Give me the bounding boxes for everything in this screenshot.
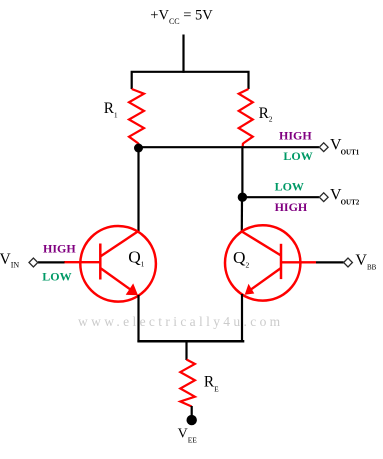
terminal diamond VIN <box>29 258 38 267</box>
resistor R2 <box>239 89 253 144</box>
wire R2 bottom lead <box>241 143 244 148</box>
wire VOUT1 horizontal <box>139 146 320 148</box>
svg-text:www.electrically4u.com: www.electrically4u.com <box>78 314 284 329</box>
transistor Q2 base bar <box>280 244 283 279</box>
resistor R1 <box>129 89 144 144</box>
transistor Q2 collector line <box>242 232 281 256</box>
wire VEE lead <box>191 406 193 419</box>
resistor RE <box>180 360 195 407</box>
wire R1 bottom lead <box>137 143 139 149</box>
wire VOUT2 horizontal <box>242 196 319 198</box>
transistor Q2 emitter line <box>247 268 281 292</box>
node junction dot N2 <box>238 193 247 202</box>
wire Q2 emitter drop <box>241 294 243 342</box>
transistor Q2 circle <box>225 225 300 300</box>
svg-text:LOW: LOW <box>283 149 312 163</box>
wire Q1 collector drop <box>137 148 139 232</box>
wire VBB lead <box>316 261 344 263</box>
wire Q1 emitter drop <box>137 295 139 342</box>
wire right branch to node N2 <box>241 147 243 197</box>
svg-text:LOW: LOW <box>275 179 304 193</box>
wire RE top lead <box>185 341 187 360</box>
svg-text:HIGH: HIGH <box>275 200 308 214</box>
wire VIN lead <box>38 261 65 263</box>
transistor Q1 collector line <box>100 231 138 257</box>
transistor Q1 emitter arrowhead <box>126 283 138 295</box>
wire bottom rail <box>137 340 244 343</box>
wire top rail <box>132 72 249 89</box>
wire VCC feed <box>182 35 184 73</box>
transistor Q2 base lead <box>281 261 316 263</box>
transistor Q1 emitter line <box>100 268 135 293</box>
svg-text:LOW: LOW <box>42 269 71 283</box>
node junction dot N1 <box>134 144 143 153</box>
terminal diamond VBB <box>344 258 353 267</box>
transistor Q1 base bar <box>99 244 102 280</box>
terminal diamond VOUT1 <box>319 143 328 152</box>
wire Q2 collector riser <box>241 197 243 232</box>
svg-text:HIGH: HIGH <box>43 242 76 256</box>
transistor Q1 circle <box>80 226 156 302</box>
node terminal dot VEE <box>187 415 197 425</box>
svg-text:HIGH: HIGH <box>279 129 312 143</box>
transistor Q1 base lead <box>64 261 100 263</box>
transistor Q2 emitter arrowhead <box>245 284 255 295</box>
terminal diamond VOUT2 <box>319 193 328 202</box>
svg-text:+VCC = 5V: +VCC = 5V <box>150 8 213 26</box>
